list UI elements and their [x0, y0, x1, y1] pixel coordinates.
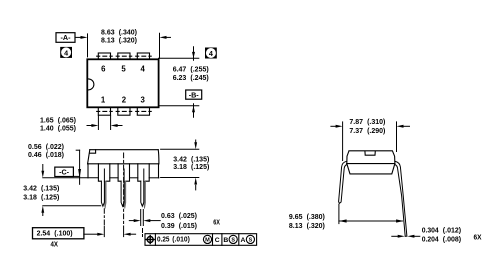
right lead (end view) [395, 161, 407, 236]
svg-text:(.010): (.010) [172, 234, 190, 243]
svg-text:3: 3 [141, 96, 146, 105]
svg-text:0.63: 0.63 [161, 211, 175, 220]
lead shoulders [98, 164, 149, 181]
pin lead 2 back [124, 181, 126, 208]
note 4 flag left [60, 47, 72, 58]
2.54 dimension line [84, 233, 98, 235]
pin 3 centerline [136, 110, 152, 112]
pin 6 centerline [97, 55, 113, 57]
pin lead 3 back [144, 181, 146, 208]
pin lead 2 front [121, 181, 124, 206]
pin numbers [101, 64, 146, 104]
lead1 centerline below tip [103, 209, 105, 226]
pin lead 1 front [101, 181, 104, 206]
pin lead 1 back [104, 181, 106, 208]
dimension 9.65/8.13 lead span [338, 204, 340, 223]
svg-text:6X: 6X [474, 235, 482, 242]
svg-text:-A-: -A- [61, 33, 72, 42]
svg-text:B: B [223, 237, 228, 244]
main centerline (side view) [123, 153, 125, 224]
datum -C- [55, 167, 74, 176]
note 4 flag right [205, 48, 217, 59]
pin 2 bottom lead [118, 107, 130, 115]
seating plane line [43, 177, 159, 179]
pin 2 centerline [116, 110, 132, 112]
dimension 0.63/0.39 lead tip width [140, 210, 142, 226]
svg-text:(.320): (.320) [119, 36, 138, 45]
svg-text:(.008): (.008) [443, 235, 462, 244]
svg-text:2: 2 [122, 96, 127, 105]
svg-text:6.23: 6.23 [173, 73, 187, 82]
pin 1 centerline [97, 110, 113, 112]
dimension 3.42/3.18 left (lead length) [42, 165, 44, 172]
side body top [90, 149, 158, 151]
svg-text:0.46: 0.46 [28, 150, 42, 159]
svg-text:(.012): (.012) [443, 226, 462, 235]
svg-text:M: M [205, 238, 210, 244]
svg-text:7.87: 7.87 [349, 117, 363, 126]
svg-text:S: S [231, 238, 235, 244]
svg-text:(.245): (.245) [190, 73, 209, 82]
svg-text:1.40: 1.40 [40, 123, 54, 132]
svg-text:(.310): (.310) [367, 117, 386, 126]
pin 5 centerline [116, 55, 132, 57]
svg-text:2.54: 2.54 [37, 229, 52, 238]
dimension 1.65/1.40 lead width [87, 115, 122, 129]
lead tip line [43, 205, 101, 207]
pins (side view): white front lead + gray back lead [101, 181, 145, 208]
shoulder lead 2 [118, 164, 129, 181]
svg-text:-C-: -C- [59, 168, 70, 177]
dimension 6.47/6.23 package width [159, 47, 199, 118]
svg-text:8.13: 8.13 [289, 221, 303, 230]
svg-text:7.37: 7.37 [349, 126, 363, 135]
svg-text:0.204: 0.204 [422, 235, 440, 244]
side body left edge [88, 150, 90, 164]
svg-text:4: 4 [209, 49, 213, 58]
svg-text:0.304: 0.304 [422, 226, 440, 235]
end view body [347, 151, 395, 174]
shoulder lead 1 [98, 164, 109, 181]
dimension 8.63/8.13 package length [75, 33, 171, 58]
svg-text:(.125): (.125) [191, 162, 210, 171]
svg-text:8.13: 8.13 [101, 36, 115, 45]
svg-text:4X: 4X [51, 240, 59, 249]
parting line [347, 163, 395, 165]
svg-text:3.18: 3.18 [173, 162, 187, 171]
svg-text:5: 5 [121, 64, 126, 73]
svg-text:(.025): (.025) [179, 211, 198, 220]
svg-text:(.125): (.125) [41, 192, 60, 201]
svg-text:A: A [240, 237, 245, 244]
pin1 index notch (top view) [88, 79, 94, 90]
datum C leader [73, 175, 79, 177]
pin 3 bottom lead [137, 107, 149, 115]
lead3 centerline below tip [142, 229, 144, 237]
pin lead 3 front [141, 181, 144, 206]
right flange [158, 164, 160, 178]
svg-text:C: C [215, 237, 220, 244]
pin 1 bottom lead [98, 107, 110, 115]
svg-text:(.290): (.290) [367, 126, 386, 135]
left lead (end view) [339, 161, 347, 203]
pin 6 top lead [98, 53, 110, 59]
dimension 3.42/3.18 right (body height) [161, 148, 199, 150]
svg-text:3.42: 3.42 [23, 183, 37, 192]
side body bottom [88, 163, 159, 165]
svg-text:(.055): (.055) [58, 123, 77, 132]
svg-text:6X: 6X [213, 219, 220, 226]
svg-text:(.135): (.135) [41, 183, 60, 192]
svg-text:-B-: -B- [189, 90, 200, 99]
shoulder lead 3 [138, 164, 149, 181]
left flange [87, 164, 89, 178]
svg-text:(.380): (.380) [307, 212, 326, 221]
feature control frame [145, 234, 257, 246]
svg-text:6: 6 [101, 64, 106, 73]
svg-text:3.18: 3.18 [23, 192, 37, 201]
pin 4 centerline [136, 55, 152, 57]
side body index notch [90, 150, 96, 154]
svg-text:(.018): (.018) [46, 150, 65, 159]
svg-text:0.39: 0.39 [161, 221, 175, 230]
svg-text:9.65: 9.65 [289, 212, 303, 221]
dimension 0.304/0.204 lead thickness [392, 235, 399, 237]
pin 4 top lead [137, 53, 149, 59]
pin 5 top lead [118, 53, 130, 59]
basic dimension 2.54 box [33, 228, 84, 239]
svg-text:(.100): (.100) [54, 229, 73, 238]
inner lead boundary lines [104, 169, 143, 181]
datum -B- [186, 90, 202, 99]
top view body [87, 59, 158, 107]
lower body [347, 164, 395, 174]
datum -A- [56, 33, 75, 43]
side body right edge [157, 150, 160, 164]
svg-text:1: 1 [101, 96, 106, 105]
svg-text:0.25: 0.25 [157, 234, 170, 243]
svg-text:S: S [249, 238, 253, 244]
svg-text:(.015): (.015) [179, 221, 198, 230]
position symbol [147, 237, 153, 243]
svg-text:4: 4 [64, 48, 68, 57]
svg-text:(.320): (.320) [307, 221, 326, 230]
svg-text:4: 4 [141, 64, 146, 73]
